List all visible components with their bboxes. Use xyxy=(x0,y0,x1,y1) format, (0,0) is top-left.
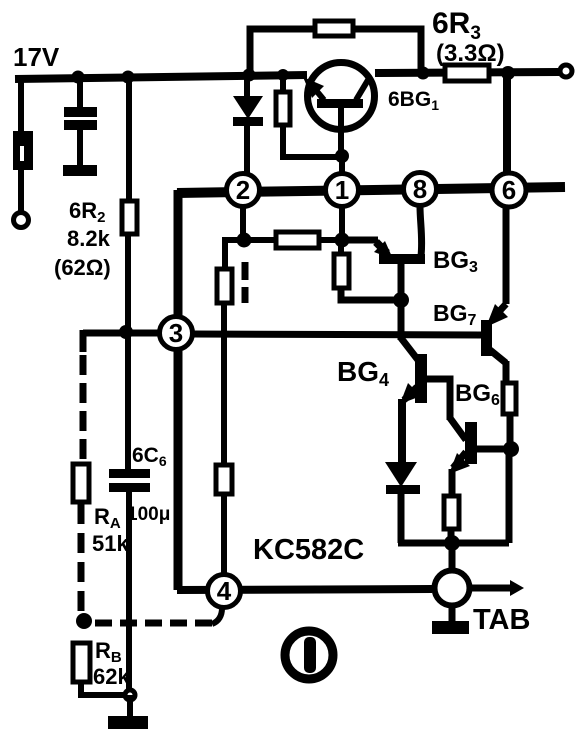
node junction rail-cap xyxy=(72,71,85,84)
resistor RA xyxy=(73,464,89,502)
wire diode D1 top xyxy=(244,75,250,98)
wire junction to horizontal resistor xyxy=(244,237,280,243)
wire input terminal drop xyxy=(18,77,24,133)
diode D1 xyxy=(233,96,263,119)
pin 2 xyxy=(227,174,260,207)
wire input rail right segment xyxy=(375,72,559,73)
resistor 6R3 xyxy=(445,65,489,81)
resistor mid-left lower xyxy=(216,465,232,494)
resistor RB xyxy=(73,643,90,682)
wire dashed RA bottom xyxy=(78,504,85,613)
wire pin1 down xyxy=(339,207,345,240)
transistor BG7 xyxy=(481,304,508,363)
ground bottom xyxy=(108,716,148,729)
wire dashed RA top xyxy=(80,355,87,461)
wire left bend down xyxy=(80,330,87,352)
wire cap top xyxy=(77,77,83,108)
wire IC bottom right segment xyxy=(472,585,512,592)
wire to pin4 xyxy=(221,494,227,576)
svg-text:1: 1 xyxy=(335,175,349,205)
node arrow bottom right xyxy=(510,580,524,596)
node junction rail-6R2 xyxy=(122,71,135,84)
transistor BG6 xyxy=(449,418,477,496)
wire diode D1 bottom xyxy=(244,126,250,174)
svg-text:4: 4 xyxy=(217,576,232,606)
node junction under pin2 xyxy=(237,233,252,248)
resistor under pin1 xyxy=(334,254,349,288)
resistor BG7 emitter xyxy=(503,383,516,414)
capacitor input filter xyxy=(64,107,97,117)
wire horizontal resistor to pin1 column xyxy=(319,237,338,243)
wire R283 bottom xyxy=(283,125,338,157)
wire BG4 base to BG6 xyxy=(424,379,450,420)
node junction pin3 wire xyxy=(119,325,133,339)
wire resistor to base junction xyxy=(507,414,514,449)
wire TAB ground stub xyxy=(449,606,456,622)
wire R283 top xyxy=(280,75,286,92)
wire junction to left resistor xyxy=(225,240,244,269)
node junction BG6 base xyxy=(503,441,519,457)
wire BG7 collector to pin6 xyxy=(503,208,510,304)
svg-text:(62Ω): (62Ω) xyxy=(54,255,111,280)
wire BG7 emitter down xyxy=(503,361,510,383)
wire bend to pin4 xyxy=(212,608,222,624)
wire 6R2 bottom xyxy=(125,234,131,333)
svg-text:100μ: 100μ xyxy=(127,504,170,525)
svg-text:62k: 62k xyxy=(93,664,130,689)
ground TAB xyxy=(432,621,469,634)
wire BG3 base to BG4 collector xyxy=(398,300,405,340)
wire resistor to BG3 base junction xyxy=(341,288,401,300)
wire down through pin3 line xyxy=(221,303,227,465)
node junction under pin1 xyxy=(335,233,350,248)
node junction cap-RB xyxy=(123,688,138,703)
wire dashes under junction xyxy=(242,262,249,303)
svg-text:17V: 17V xyxy=(13,42,60,72)
wire input rail left segment xyxy=(15,75,307,79)
wire pin6 drop xyxy=(503,73,511,174)
node junction rail-pin6 xyxy=(501,66,515,80)
transistor BG1 xyxy=(303,63,375,158)
pin TAB xyxy=(435,571,470,606)
pin 8 xyxy=(404,173,437,206)
node output terminal xyxy=(560,65,572,77)
wire BG6 base xyxy=(474,446,507,453)
wire 6C6 bottom xyxy=(126,492,132,696)
wire to ground xyxy=(127,695,133,718)
resistor base bleed xyxy=(276,92,290,125)
label figure 1 xyxy=(285,631,333,679)
wire pin2 down xyxy=(240,207,246,240)
node junction TAB xyxy=(444,535,460,551)
diode D2 xyxy=(385,462,417,487)
svg-text:KC582C: KC582C xyxy=(253,534,364,566)
wire below fuse xyxy=(18,170,24,213)
svg-text:6: 6 xyxy=(502,175,516,205)
resistor horizontal mid xyxy=(276,232,319,248)
wire emitter resistor bottom xyxy=(448,529,455,543)
wire 6C6 top xyxy=(125,332,131,470)
node junction rail right of bypass xyxy=(417,67,430,80)
pin 3 xyxy=(160,317,193,350)
wire IC bottom edge xyxy=(177,589,432,590)
capacitor 6C6 xyxy=(109,469,150,478)
wire BG1 to pin1 xyxy=(339,156,345,175)
resistor 6R2 xyxy=(122,201,137,234)
ground bar below capacitor xyxy=(63,165,97,176)
svg-text:2: 2 xyxy=(236,175,250,205)
transistor BG3 xyxy=(348,206,425,300)
resistor input fuse xyxy=(13,131,33,170)
resistor BG6 emitter xyxy=(444,496,459,529)
node input terminal xyxy=(14,213,29,228)
wire cap bottom xyxy=(77,130,83,166)
wire IC left edge xyxy=(174,190,183,590)
wire 6R2 top xyxy=(126,77,132,201)
node junction BG3 base xyxy=(393,292,409,308)
svg-text:8: 8 xyxy=(413,174,427,204)
wire top bypass xyxy=(250,29,421,75)
pin 6 xyxy=(492,173,526,207)
svg-text:8.2k: 8.2k xyxy=(67,226,111,251)
svg-text:TAB: TAB xyxy=(473,604,530,636)
wire junction down to bottom xyxy=(506,449,513,543)
wire to vertical resistor xyxy=(338,240,344,254)
resistor mid-left upper xyxy=(217,269,232,303)
wire pin3 to left bend xyxy=(83,330,160,337)
wire RB bottom xyxy=(81,682,128,695)
wire bottom rail xyxy=(398,540,509,547)
node junction rail top-wire xyxy=(243,69,256,82)
svg-text:51k: 51k xyxy=(92,531,129,556)
resistor top bypass xyxy=(315,21,353,36)
transistor BG4 xyxy=(400,338,427,463)
wire dashed to pin4 xyxy=(95,620,213,627)
node junction base BG1 xyxy=(335,149,349,163)
wire D2 to bottom xyxy=(398,494,405,543)
node junction rail-R283 xyxy=(277,69,289,81)
wire IC top edge xyxy=(177,187,565,193)
pin 1 xyxy=(326,174,359,207)
wire TAB drop xyxy=(449,543,456,569)
node junction RA-RB xyxy=(76,613,92,629)
wire pin3 to BG7 base xyxy=(193,334,481,335)
svg-text:3: 3 xyxy=(169,318,183,348)
pin 4 xyxy=(208,575,241,608)
